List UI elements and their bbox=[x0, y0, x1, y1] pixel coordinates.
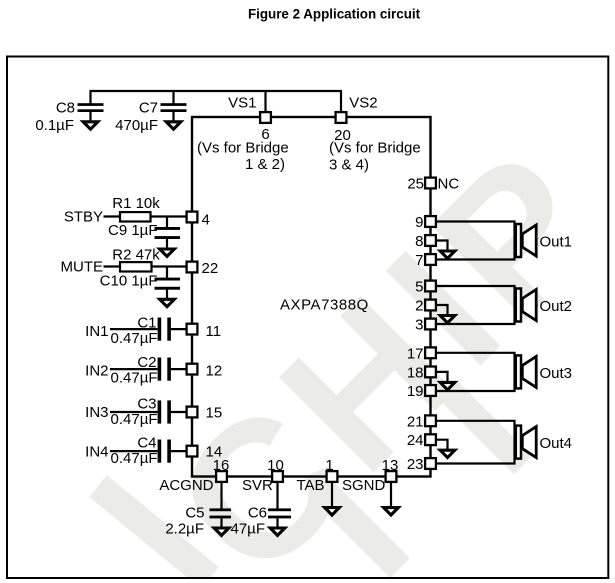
svg-text:3: 3 bbox=[415, 317, 423, 334]
svg-text:47µF: 47µF bbox=[231, 521, 266, 538]
svg-text:19: 19 bbox=[407, 383, 424, 400]
svg-text:4: 4 bbox=[202, 212, 210, 229]
svg-text:10: 10 bbox=[267, 457, 284, 474]
svg-text:IN3: IN3 bbox=[85, 404, 108, 421]
svg-text:IN1: IN1 bbox=[85, 323, 108, 340]
svg-text:1 & 2): 1 & 2) bbox=[245, 156, 285, 173]
svg-text:470µF: 470µF bbox=[115, 117, 158, 134]
svg-text:13: 13 bbox=[382, 457, 399, 474]
svg-text:1: 1 bbox=[325, 457, 333, 474]
svg-text:AXPA7388Q: AXPA7388Q bbox=[280, 297, 369, 314]
svg-text:0.47µF: 0.47µF bbox=[111, 411, 158, 428]
svg-text:Figure 2 Application circuit: Figure 2 Application circuit bbox=[248, 7, 421, 22]
svg-text:0.47µF: 0.47µF bbox=[111, 330, 158, 347]
svg-text:IN2: IN2 bbox=[85, 363, 108, 380]
svg-text:C3: C3 bbox=[137, 396, 156, 413]
svg-text:8: 8 bbox=[415, 233, 423, 250]
svg-text:21: 21 bbox=[407, 413, 424, 430]
svg-text:Out2: Out2 bbox=[540, 298, 573, 315]
svg-text:ACGND: ACGND bbox=[159, 477, 213, 494]
svg-text:IN4: IN4 bbox=[85, 443, 108, 460]
svg-text:18: 18 bbox=[407, 364, 424, 381]
svg-text:15: 15 bbox=[206, 404, 223, 421]
svg-text:0.47µF: 0.47µF bbox=[111, 370, 158, 387]
svg-text:TAB: TAB bbox=[297, 477, 325, 494]
svg-text:16: 16 bbox=[213, 457, 230, 474]
svg-text:C9 1µF: C9 1µF bbox=[108, 222, 158, 239]
svg-text:24: 24 bbox=[407, 432, 424, 449]
svg-text:25: 25 bbox=[407, 176, 424, 193]
svg-text:Out4: Out4 bbox=[540, 435, 573, 452]
svg-text:VS1: VS1 bbox=[228, 95, 256, 112]
svg-text:7: 7 bbox=[415, 252, 423, 269]
svg-text:VS2: VS2 bbox=[349, 95, 377, 112]
svg-text:C8: C8 bbox=[56, 100, 75, 117]
svg-text:9: 9 bbox=[415, 214, 423, 231]
svg-text:0.47µF: 0.47µF bbox=[111, 450, 158, 467]
svg-text:23: 23 bbox=[407, 456, 424, 473]
svg-text:C2: C2 bbox=[137, 354, 156, 371]
svg-text:22: 22 bbox=[202, 260, 219, 277]
svg-text:11: 11 bbox=[206, 323, 222, 340]
svg-text:CHIP: CHIP bbox=[134, 106, 615, 583]
svg-text:0.1µF: 0.1µF bbox=[35, 117, 74, 134]
svg-text:Out3: Out3 bbox=[540, 365, 573, 382]
svg-text:(Vs for Bridge: (Vs for Bridge bbox=[329, 140, 421, 157]
svg-text:STBY: STBY bbox=[64, 209, 103, 226]
svg-text:C10 1µF: C10 1µF bbox=[100, 273, 158, 290]
svg-text:17: 17 bbox=[407, 345, 424, 362]
svg-text:MUTE: MUTE bbox=[61, 259, 104, 276]
svg-text:NC: NC bbox=[438, 176, 460, 193]
svg-text:SGND: SGND bbox=[342, 477, 386, 494]
svg-text:2: 2 bbox=[415, 298, 423, 315]
svg-text:5: 5 bbox=[415, 279, 423, 296]
svg-text:C5: C5 bbox=[185, 505, 204, 522]
svg-text:R2 47k: R2 47k bbox=[112, 247, 160, 264]
svg-text:3 & 4): 3 & 4) bbox=[329, 157, 369, 174]
svg-text:(Vs for Bridge: (Vs for Bridge bbox=[197, 140, 289, 157]
svg-text:C7: C7 bbox=[139, 100, 158, 117]
svg-text:2.2µF: 2.2µF bbox=[165, 521, 204, 538]
svg-text:Out1: Out1 bbox=[540, 234, 573, 251]
svg-text:12: 12 bbox=[206, 363, 223, 380]
svg-text:SVR: SVR bbox=[242, 477, 273, 494]
svg-text:C1: C1 bbox=[137, 315, 156, 332]
svg-text:C6: C6 bbox=[248, 505, 267, 522]
svg-text:R1 10k: R1 10k bbox=[112, 195, 160, 212]
